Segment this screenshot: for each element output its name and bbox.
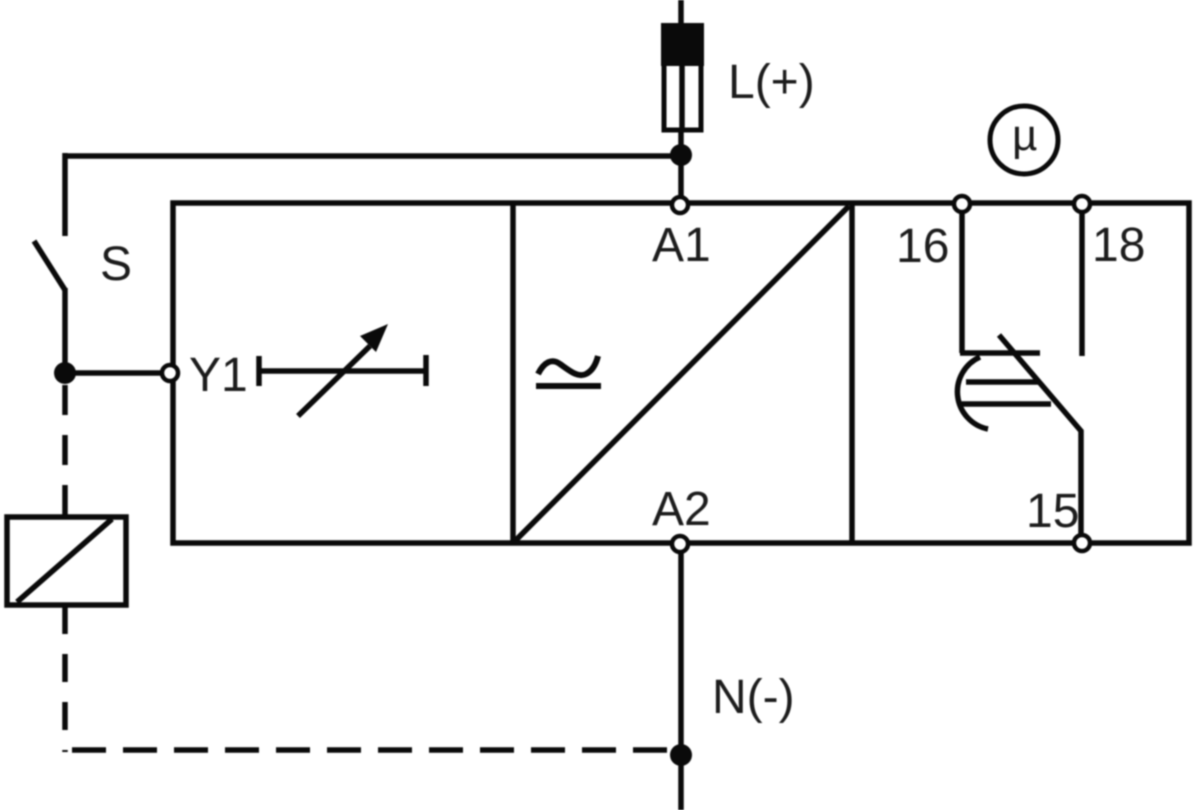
timer delay hatch line lower — [959, 401, 1051, 407]
wire 18 down — [1079, 212, 1085, 356]
wire fuse to junction — [678, 131, 684, 155]
main device box — [173, 203, 1189, 543]
timer contact blade — [999, 335, 1081, 537]
AC/DC supply symbol — [536, 356, 601, 386]
indicator circle µ — [990, 106, 1058, 174]
terminal A1 — [672, 197, 688, 213]
wire left vertical upper — [62, 153, 68, 236]
svg-text:Y1: Y1 — [189, 349, 248, 402]
svg-text:µ: µ — [1012, 111, 1037, 160]
diagonal separator of middle section — [514, 206, 849, 542]
svg-text:16: 16 — [896, 220, 949, 273]
timer delay symbol arc — [957, 357, 988, 429]
svg-text:N(-): N(-) — [712, 671, 795, 724]
timer delay hatch line upper — [966, 379, 1040, 385]
dashed wire bottom horizontal — [72, 747, 670, 753]
fuse F1 — [661, 23, 704, 130]
wire bottom stub — [678, 755, 684, 810]
setting potentiometer arrow symbol — [259, 324, 426, 416]
relay coil box — [7, 517, 126, 605]
junction left — [54, 362, 76, 384]
terminal A2 — [672, 536, 688, 552]
dashed wire below coil — [62, 606, 68, 752]
switch S blade — [34, 241, 65, 290]
wire junction to Y1 — [65, 370, 163, 376]
svg-text:A1: A1 — [652, 219, 711, 272]
junction bottom — [670, 744, 692, 766]
svg-text:18: 18 — [1092, 219, 1145, 272]
wire left vertical lower — [62, 288, 68, 374]
junction top — [670, 144, 692, 166]
svg-text:A2: A2 — [652, 483, 711, 536]
fixed contact 16 — [960, 350, 1040, 356]
terminal 15 — [1074, 535, 1090, 551]
terminal 18 — [1074, 196, 1090, 212]
wire 16 down — [959, 212, 965, 353]
divider left/middle sections — [510, 203, 516, 543]
wire A2 down to junction — [678, 552, 684, 755]
dashed wire from S branch down — [62, 385, 68, 516]
svg-text:S: S — [100, 238, 132, 291]
wire L(+) supply drop — [678, 0, 684, 28]
svg-text:L(+): L(+) — [728, 56, 815, 109]
wire top horizontal — [65, 153, 681, 159]
terminal 16 — [954, 196, 970, 212]
divider middle/right sections — [849, 203, 855, 543]
svg-text:15: 15 — [1026, 485, 1079, 538]
wire junction to A1 — [678, 155, 684, 198]
terminal Y1 — [162, 365, 178, 381]
